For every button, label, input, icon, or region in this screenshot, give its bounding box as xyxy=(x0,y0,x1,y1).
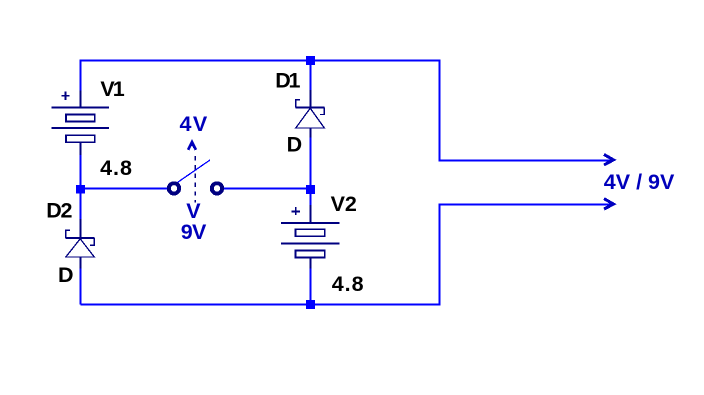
svg-text:V1: V1 xyxy=(100,77,124,101)
svg-text:D: D xyxy=(58,263,74,287)
svg-text:D2: D2 xyxy=(46,199,72,223)
svg-text:4V / 9V: 4V / 9V xyxy=(604,170,675,194)
svg-text:4V: 4V xyxy=(180,112,209,136)
svg-text:4.8: 4.8 xyxy=(100,156,133,180)
svg-text:4.8: 4.8 xyxy=(332,272,365,296)
svg-text:9V: 9V xyxy=(181,220,207,244)
svg-text:V2: V2 xyxy=(331,192,357,216)
svg-text:D1: D1 xyxy=(275,69,300,93)
svg-text:D: D xyxy=(287,133,303,157)
